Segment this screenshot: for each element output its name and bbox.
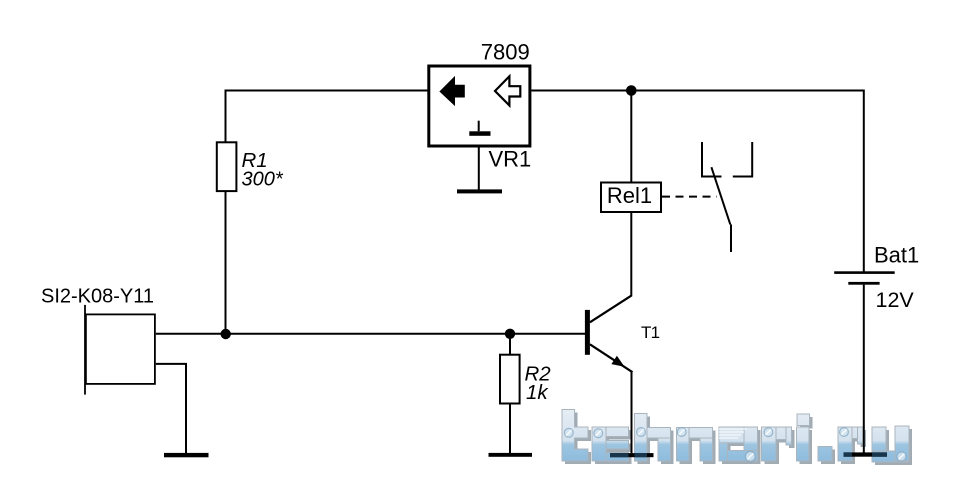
ground regulator	[457, 189, 502, 193]
svg-text:300*: 300*	[242, 168, 284, 190]
wire regulator ground	[478, 148, 480, 191]
svg-text:12V: 12V	[876, 288, 915, 312]
regulator common tab symbol	[478, 121, 480, 132]
watermark a-stripes	[719, 429, 747, 438]
regulator filled arrow	[439, 76, 464, 106]
watermark tehnari.ru shadow	[565, 413, 912, 466]
node junction collector branch	[626, 85, 637, 96]
node junction R2-base	[505, 329, 515, 339]
relay contact dashed link	[662, 196, 717, 198]
svg-text:7809: 7809	[481, 40, 530, 65]
ground battery	[844, 452, 887, 456]
resistor R2	[500, 355, 520, 404]
svg-text:T1: T1	[641, 323, 660, 342]
svg-text:VR1: VR1	[489, 147, 532, 172]
wire emitter down	[631, 372, 633, 454]
sensor SI2-K08-Y11 box	[86, 314, 155, 384]
svg-text:Rel1: Rel1	[607, 183, 652, 208]
ground R2	[489, 453, 533, 457]
battery Bat1 positive plate	[834, 271, 895, 274]
svg-text:Bat1: Bat1	[874, 243, 919, 268]
watermark tint over ground bars	[562, 410, 909, 463]
node junction R1-base	[221, 329, 231, 339]
ground emitter	[610, 453, 654, 457]
wire R2 top	[509, 334, 511, 355]
battery Bat1 negative plate	[848, 282, 879, 285]
regulator VR1 box	[429, 66, 530, 146]
wire base horizontal	[156, 333, 586, 335]
transistor emitter arrow	[611, 356, 624, 367]
relay contact blade lower lead	[730, 224, 732, 252]
ground sensor	[164, 453, 209, 457]
wire battery bottom	[863, 285, 865, 453]
wire top right horizontal	[531, 90, 864, 92]
watermark screws	[564, 428, 906, 462]
watermark tehnari.ru letters	[562, 410, 909, 463]
wire battery top	[863, 90, 865, 272]
relay contact left terminal	[702, 142, 722, 177]
relay coil Rel1	[601, 183, 661, 213]
wire R1 top vertical	[225, 90, 227, 143]
svg-text:SI2-K08-Y11: SI2-K08-Y11	[41, 286, 154, 308]
regulator outline arrow	[495, 76, 520, 105]
relay contact right terminal	[733, 142, 752, 177]
wire top left horizontal	[226, 90, 429, 92]
wire R2 bottom	[509, 403, 511, 453]
wire junction to relay coil	[630, 91, 632, 183]
transistor collector lead	[590, 295, 632, 322]
relay contact blade	[711, 167, 730, 224]
svg-text:1k: 1k	[526, 381, 549, 404]
sensor left edge line	[84, 305, 86, 395]
wire relay to collector	[630, 213, 632, 296]
transistor emitter lead	[590, 344, 633, 372]
resistor R1	[217, 142, 237, 191]
wire R1 bottom vertical	[225, 191, 227, 334]
wire sensor lower pin	[156, 364, 186, 454]
transistor T1 base bar	[585, 310, 590, 355]
